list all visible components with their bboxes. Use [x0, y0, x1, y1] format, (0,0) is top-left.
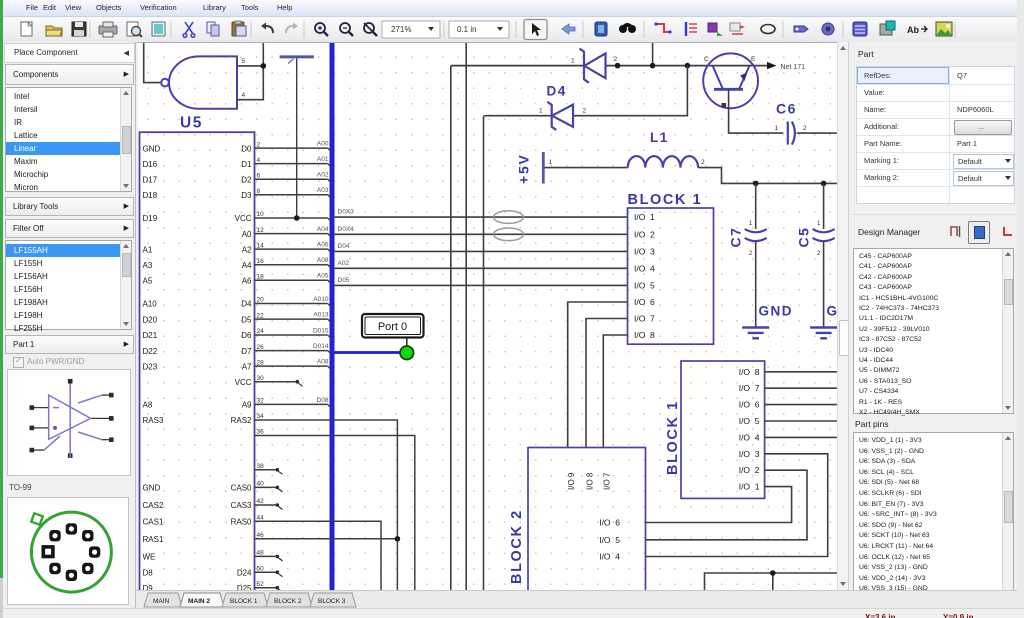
U5 pin 32 (A8/A9) — [143, 397, 332, 410]
svg-text:MAIN 2: MAIN 2 — [188, 598, 210, 605]
svg-text:6: 6 — [257, 172, 261, 179]
new — [21, 22, 32, 36]
U5 pin 22 (D20/D5) — [143, 312, 332, 325]
svg-text:BLOCK 3: BLOCK 3 — [318, 598, 346, 605]
wire block1 io7 — [586, 319, 628, 448]
wire long vertical C — [483, 116, 485, 592]
svg-text:GND: GND — [143, 144, 161, 153]
U5 pin 28 (D23/A7) — [143, 359, 332, 372]
svg-text:BLOCK 1: BLOCK 1 — [230, 598, 258, 605]
U5 pin 34 (RAS3/RAS2) — [143, 413, 398, 592]
wire block1b io5 — [765, 420, 837, 422]
svg-text:1: 1 — [539, 108, 543, 115]
zoom in — [315, 23, 328, 36]
Auto PWR/GND checkbox — [13, 357, 24, 368]
svg-text:Net 171: Net 171 — [781, 64, 806, 71]
IC U5 body — [140, 132, 255, 597]
svg-text:22: 22 — [257, 312, 265, 319]
wire block1 io8 — [603, 335, 627, 448]
svg-text:I/O 6: I/O 6 — [634, 297, 655, 307]
svg-text:I/O 4: I/O 4 — [634, 263, 655, 273]
wire transistor base stub — [729, 89, 784, 133]
wire net D04 — [335, 250, 628, 252]
wire block1b io4 — [765, 436, 837, 438]
svg-text:0.1 in: 0.1 in — [457, 25, 477, 34]
copy — [207, 22, 219, 36]
wire long vertical B — [465, 43, 467, 592]
wire net D0X3 — [335, 216, 628, 218]
rename — [907, 25, 927, 35]
svg-text:A6: A6 — [242, 276, 252, 285]
part properties table — [856, 66, 1015, 204]
bus — [330, 43, 335, 592]
svg-text:I/O 1: I/O 1 — [739, 482, 760, 492]
svg-text:D22: D22 — [143, 347, 158, 356]
svg-text:D0X3: D0X3 — [338, 209, 355, 216]
U5 pin 4 (D16/D1) — [143, 156, 332, 169]
Design Manager header — [858, 227, 920, 237]
svg-text:BLOCK 2: BLOCK 2 — [274, 598, 302, 605]
node junction — [770, 570, 776, 576]
U5 pin 30 (/VCC) — [235, 375, 303, 387]
svg-text:RAS3: RAS3 — [143, 416, 164, 425]
wire block1 io6 — [568, 302, 628, 448]
svg-text:26: 26 — [257, 344, 265, 351]
status bar — [3, 608, 1024, 618]
svg-text:A06: A06 — [317, 242, 329, 249]
net arrow Net 171 — [767, 62, 777, 69]
symbol preview — [7, 369, 131, 476]
svg-text:CAS1: CAS1 — [143, 518, 164, 527]
node junction — [261, 63, 267, 69]
Components bar — [5, 64, 134, 85]
Place Component header — [4, 43, 135, 63]
wire block1b io8 — [765, 371, 837, 373]
canvas vertical scrollbar — [837, 42, 849, 590]
capacitor C5 — [823, 183, 825, 229]
wire block1b io1 to block2 io6 — [646, 487, 792, 523]
grid combo — [449, 21, 509, 38]
svg-text:D24: D24 — [237, 568, 252, 577]
svg-text:GND: GND — [759, 304, 794, 319]
svg-text:271%: 271% — [391, 25, 411, 34]
svg-text:D014: D014 — [313, 343, 329, 350]
canvas — [138, 42, 837, 590]
component list — [5, 240, 132, 330]
svg-text:CAS3: CAS3 — [231, 501, 252, 510]
svg-text:A3: A3 — [143, 261, 153, 270]
svg-text:A9: A9 — [242, 401, 252, 410]
svg-text:A0: A0 — [242, 230, 252, 239]
svg-text:U5: U5 — [180, 115, 203, 132]
svg-text:14: 14 — [257, 242, 265, 249]
svg-text:GND: GND — [143, 484, 161, 493]
menu bar — [3, 0, 1024, 17]
wire drop — [772, 573, 774, 593]
svg-text:A03: A03 — [317, 187, 329, 194]
U5 pin 48 (WE/) — [143, 550, 283, 562]
ellipse tool — [761, 25, 775, 34]
svg-text:D18: D18 — [143, 191, 158, 200]
svg-text:A010: A010 — [313, 296, 329, 303]
svg-text:18: 18 — [257, 273, 265, 280]
svg-text:D0X4: D0X4 — [338, 226, 355, 233]
svg-text:C7: C7 — [728, 227, 744, 248]
U5 pin 12 (/A0) — [242, 226, 332, 239]
svg-text:I/O 1: I/O 1 — [634, 212, 655, 222]
wire top net — [451, 65, 767, 67]
toolbar — [3, 17, 1024, 43]
window right edge — [1017, 0, 1024, 618]
wire block1b io6 — [765, 404, 837, 406]
svg-text:I/O 9: I/O 9 — [567, 472, 576, 490]
Filter Off bar — [5, 219, 134, 238]
svg-text:2: 2 — [803, 125, 807, 132]
hierarchy block BLOCK 2 — [528, 448, 646, 594]
zoom out — [340, 23, 353, 36]
svg-text:2: 2 — [701, 159, 705, 166]
svg-text:28: 28 — [257, 359, 265, 366]
wire block1b io2 to block2 io5 — [646, 470, 808, 540]
svg-text:24: 24 — [257, 328, 265, 335]
svg-text:44: 44 — [257, 515, 265, 522]
svg-text:D2: D2 — [241, 175, 252, 184]
svg-text:A7: A7 — [242, 362, 252, 371]
svg-text:I/O 3: I/O 3 — [739, 449, 760, 459]
select tool (pressed) — [524, 20, 547, 40]
svg-text:48: 48 — [257, 550, 265, 557]
wire net D0X4 — [335, 233, 628, 235]
tag — [794, 26, 808, 32]
svg-text:50: 50 — [257, 565, 265, 572]
svg-text:A1: A1 — [143, 245, 153, 254]
svg-text:D23: D23 — [143, 362, 158, 371]
svg-text:BLOCK 1: BLOCK 1 — [628, 192, 703, 208]
component icon — [595, 22, 607, 36]
U5 pin 52 (D9/D25) — [143, 581, 283, 593]
U5 pin 40 (GND/CAS0) — [143, 481, 283, 493]
redo (disabled) — [286, 23, 298, 34]
node junction — [395, 536, 401, 542]
svg-text:D1: D1 — [241, 160, 252, 169]
svg-text:D20: D20 — [143, 315, 158, 324]
svg-text:D5: D5 — [241, 315, 252, 324]
svg-text:+5V: +5V — [516, 153, 532, 184]
svg-text:4: 4 — [242, 92, 246, 99]
svg-text:30: 30 — [257, 375, 265, 382]
node junction — [821, 181, 827, 187]
svg-text:A08: A08 — [317, 257, 329, 264]
svg-text:D16: D16 — [143, 160, 158, 169]
bus crossing lens — [494, 228, 524, 241]
U5 pin 26 (D22/D7) — [143, 343, 332, 356]
wire pin 4 — [237, 43, 263, 100]
svg-text:A013: A013 — [313, 312, 329, 319]
U5 pin 8 (D18/D3) — [143, 187, 332, 200]
svg-text:I/O 6: I/O 6 — [599, 518, 620, 528]
svg-text:Port 0: Port 0 — [378, 321, 407, 333]
capacitor C6 — [788, 122, 795, 145]
wire stub from top — [652, 43, 654, 66]
green desktop edge strip — [0, 0, 3, 578]
hierarchy block BLOCK 1 (lower) — [681, 361, 765, 498]
U5 pin 18 (A5/A6) — [143, 273, 332, 286]
svg-text:A08: A08 — [317, 359, 329, 366]
U5 pin 24 (D21/D6) — [143, 328, 332, 341]
svg-text:52: 52 — [257, 581, 265, 588]
svg-text:D08: D08 — [317, 397, 329, 404]
svg-text:BLOCK 1: BLOCK 1 — [665, 400, 681, 475]
svg-text:2: 2 — [257, 141, 261, 148]
wire port net (blue) — [335, 351, 401, 354]
U5 pin 50 (D8/D24) — [143, 565, 283, 577]
svg-text:32: 32 — [257, 398, 265, 405]
svg-text:46: 46 — [257, 532, 265, 539]
cut — [183, 22, 195, 37]
svg-text:A04: A04 — [317, 226, 329, 233]
scale combo — [382, 21, 440, 38]
net port Port 0 — [362, 314, 424, 347]
svg-text:34: 34 — [257, 413, 265, 420]
svg-text:I/O 2: I/O 2 — [739, 465, 760, 475]
open — [46, 26, 62, 36]
image — [936, 22, 952, 36]
svg-text:D4: D4 — [547, 84, 567, 99]
svg-text:A02: A02 — [317, 172, 329, 179]
pattern preview — [7, 497, 129, 605]
Library Tools bar — [5, 197, 134, 216]
convert to PCB — [880, 21, 895, 35]
svg-text:1: 1 — [775, 125, 779, 132]
gate U5.2 — [161, 56, 237, 108]
svg-text:D05: D05 — [338, 277, 350, 284]
svg-text:I/O 5: I/O 5 — [634, 280, 655, 290]
svg-text:A5: A5 — [143, 276, 153, 285]
node junction — [294, 215, 300, 221]
svg-text:1: 1 — [549, 159, 553, 166]
svg-text:I/O 4: I/O 4 — [599, 552, 620, 562]
Part pins — [855, 419, 889, 429]
svg-text:4: 4 — [257, 157, 261, 164]
svg-text:40: 40 — [257, 481, 265, 488]
wire net A02 — [335, 267, 628, 269]
svg-text:D6: D6 — [241, 331, 252, 340]
svg-text:D19: D19 — [143, 214, 158, 223]
svg-text:A2: A2 — [242, 245, 252, 254]
ground — [742, 328, 769, 339]
svg-text:12: 12 — [257, 227, 265, 234]
U5 pin 6 (D17/D2) — [143, 172, 332, 185]
svg-text:A05: A05 — [317, 273, 329, 280]
svg-text:5: 5 — [242, 58, 246, 65]
svg-text:A02: A02 — [338, 260, 350, 267]
wire bottom right net — [705, 573, 837, 593]
wire net D4 row — [484, 66, 687, 116]
titles — [152, 22, 165, 36]
svg-text:2: 2 — [614, 56, 618, 63]
net port — [730, 23, 745, 34]
svg-text:36: 36 — [257, 429, 265, 436]
svg-text:VCC: VCC — [235, 378, 252, 387]
Part 1 bar — [5, 335, 134, 354]
svg-text:D8: D8 — [143, 568, 154, 577]
bottom tab strip — [136, 590, 1017, 609]
U5 pin 20 (A10/D4) — [143, 296, 332, 309]
library list — [5, 87, 132, 192]
svg-text:E: E — [751, 56, 756, 63]
node junction — [615, 63, 621, 69]
svg-text:L1: L1 — [650, 130, 669, 145]
zoom window — [364, 23, 377, 36]
svg-text:I/O 7: I/O 7 — [739, 383, 760, 393]
svg-text:38: 38 — [257, 463, 265, 470]
U5 pin 16 (A3/A4) — [143, 257, 332, 270]
U5 pin 14 (A1/A2) — [143, 242, 332, 255]
node junction — [753, 181, 759, 187]
svg-text:I/O 8: I/O 8 — [585, 472, 594, 490]
svg-text:10: 10 — [257, 211, 265, 218]
svg-text:I/O 5: I/O 5 — [739, 416, 760, 426]
svg-text:RAS1: RAS1 — [143, 535, 164, 544]
wire — [144, 43, 162, 83]
svg-text:1: 1 — [571, 58, 575, 65]
capacitor C7 — [755, 183, 757, 229]
svg-text:I/O 8: I/O 8 — [634, 330, 655, 340]
print preview — [127, 22, 142, 37]
svg-text:RAS0: RAS0 — [231, 518, 252, 527]
svg-text:D0: D0 — [241, 144, 252, 153]
svg-text:WE: WE — [143, 553, 156, 562]
svg-text:A00: A00 — [317, 141, 329, 148]
svg-text:A01: A01 — [317, 156, 329, 163]
wire to L1 — [545, 167, 628, 169]
svg-text:CAS2: CAS2 — [143, 501, 164, 510]
node port (green) — [400, 346, 414, 360]
node junction — [685, 63, 691, 69]
right panel — [848, 42, 1018, 608]
svg-text:C6: C6 — [776, 101, 797, 117]
design manager list — [853, 248, 1014, 414]
svg-text:D17: D17 — [143, 175, 158, 184]
transistor Q7 — [703, 53, 758, 108]
U5 pin 44 (CAS1/RAS0) — [143, 515, 382, 593]
svg-text:D015: D015 — [313, 328, 329, 335]
svg-text:I/O 5: I/O 5 — [599, 535, 620, 545]
diode D4 — [547, 102, 573, 130]
svg-text:A10: A10 — [143, 300, 158, 309]
wire block1b io7 — [765, 387, 837, 389]
svg-text:A4: A4 — [242, 261, 252, 270]
save — [72, 22, 86, 36]
TO-99 label — [9, 483, 32, 492]
svg-text:MAIN: MAIN — [153, 598, 170, 605]
power +5V rail symbol — [280, 57, 314, 218]
svg-text:I/O 4: I/O 4 — [739, 432, 760, 442]
svg-text:2: 2 — [583, 108, 587, 115]
svg-text:A8: A8 — [143, 401, 153, 410]
print — [99, 22, 117, 37]
svg-text:GND: GND — [827, 304, 838, 319]
U5 pin 42 (CAS2/CAS3) — [143, 498, 283, 510]
svg-text:I/O 3: I/O 3 — [634, 246, 655, 256]
svg-text:I/O 7: I/O 7 — [603, 472, 612, 490]
svg-text:CAS0: CAS0 — [231, 484, 252, 493]
svg-text:42: 42 — [257, 498, 265, 505]
svg-text:RAS2: RAS2 — [231, 416, 252, 425]
svg-text:20: 20 — [257, 297, 265, 304]
svg-text:8: 8 — [257, 188, 261, 195]
svg-text:D7: D7 — [241, 347, 252, 356]
svg-text:D3: D3 — [241, 191, 252, 200]
wire C6 right — [797, 132, 837, 134]
layers — [853, 22, 867, 36]
place bus — [686, 22, 697, 36]
bus crossing lens — [494, 211, 524, 224]
wire net D05 — [335, 284, 628, 286]
place wire — [654, 22, 671, 33]
wire block1b io3 to block2 io4 — [646, 454, 828, 557]
wire long vertical A — [450, 66, 452, 592]
ground — [810, 328, 837, 339]
bus connection — [708, 23, 723, 36]
svg-text:VCC: VCC — [235, 214, 252, 223]
svg-text:Ab: Ab — [907, 25, 919, 35]
svg-text:D04: D04 — [338, 243, 350, 250]
undo — [261, 23, 273, 34]
svg-text:D4: D4 — [241, 300, 252, 309]
find — [619, 23, 636, 33]
left panel — [3, 42, 136, 608]
diode D3 (schottky) — [580, 49, 606, 83]
svg-text:BLOCK 2: BLOCK 2 — [509, 509, 525, 584]
svg-text:I/O 7: I/O 7 — [634, 314, 655, 324]
node junction — [650, 63, 656, 69]
U5 pin 10 (D19/VCC) — [143, 211, 332, 223]
pan tool — [562, 24, 575, 34]
U5 pin 38 — [255, 463, 283, 474]
svg-text:D21: D21 — [143, 331, 158, 340]
svg-text:I/O 6: I/O 6 — [739, 400, 760, 410]
gear — [822, 23, 834, 35]
svg-text:C5: C5 — [796, 227, 812, 248]
svg-text:I/O 2: I/O 2 — [634, 229, 655, 239]
svg-text:C: C — [704, 56, 709, 63]
U5 pin 36 — [255, 429, 415, 592]
svg-text:16: 16 — [257, 258, 265, 265]
wire L1 to rail — [698, 168, 837, 184]
U5 pin 2 (GND/D0) — [143, 141, 332, 154]
svg-text:I/O 8: I/O 8 — [739, 367, 760, 377]
wire pin 5 — [237, 65, 263, 67]
paste — [232, 21, 246, 36]
U5 pin 46 (RAS1/) — [143, 532, 398, 544]
